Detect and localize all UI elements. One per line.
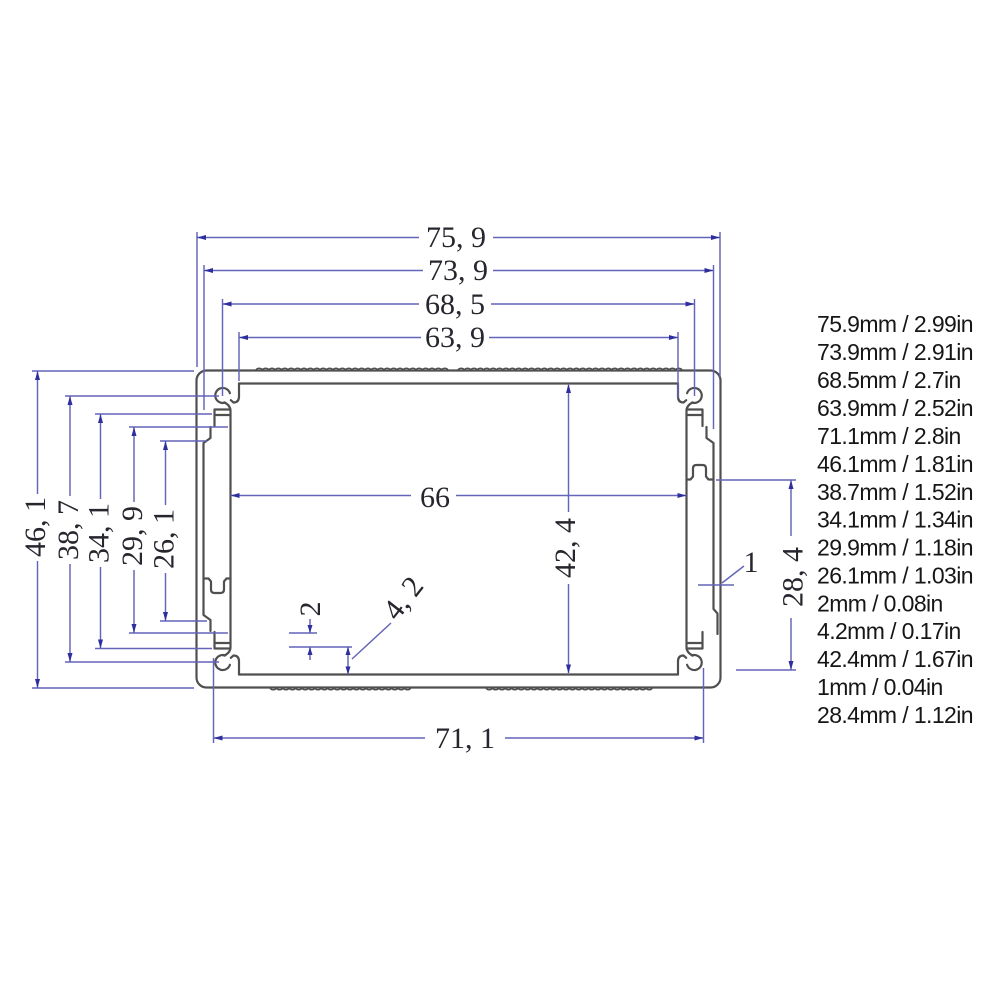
dim 26,1 extensions [160,441,207,621]
svg-text:1: 1 [744,546,759,579]
dim 38,7 line [69,396,71,662]
svg-text:38.7mm / 1.52in: 38.7mm / 1.52in [817,479,973,505]
dim 46,1 extensions [32,371,194,688]
arrows 4,2 [346,647,351,655]
arrows 2 [308,625,313,633]
svg-text:29.9mm / 1.18in: 29.9mm / 1.18in [817,535,973,561]
dim 68,5 extensions [223,299,695,396]
arrows 29,9 [132,427,137,436]
dim 75,9 line [197,237,720,239]
svg-text:29, 9: 29, 9 [116,506,149,566]
svg-text:68.5mm / 2.7in: 68.5mm / 2.7in [817,367,961,393]
dim 66 line [231,495,687,497]
svg-text:73.9mm / 2.91in: 73.9mm / 2.91in [817,339,973,365]
svg-text:4.2mm / 0.17in: 4.2mm / 0.17in [817,618,961,644]
arrows 42,4 [566,384,571,393]
top knurl serration band left [256,368,448,370]
svg-text:26, 1: 26, 1 [148,509,181,569]
dim 2 extensions [289,633,352,647]
top knurl serration band right [458,368,682,370]
dim 1 leader and tick [698,566,744,585]
dim 68,5 line [223,303,695,305]
dim 71,1 line [214,737,704,739]
dimension text labels [19,221,810,755]
dim 29,9 extensions [129,427,228,633]
arrows 68,5 [223,302,232,307]
left shelf with screw groove (U) [204,579,231,594]
svg-text:71.1mm / 2.8in: 71.1mm / 2.8in [817,423,961,449]
arrows 46,1 [35,371,40,380]
dim 28,4 line [790,480,792,670]
dim 73,9 line [204,270,714,272]
svg-text:75, 9: 75, 9 [426,221,486,254]
svg-text:46, 1: 46, 1 [19,497,52,557]
arrows 66 [231,493,240,498]
svg-text:34, 1: 34, 1 [83,503,116,563]
profile: enclosure cross-section outline [197,368,721,690]
svg-text:63.9mm / 2.52in: 63.9mm / 2.52in [817,395,973,421]
svg-text:71, 1: 71, 1 [435,722,495,755]
outer shell rounded rectangle [197,371,721,688]
dim 2 line [309,619,311,660]
right shelf with screw groove (inverted U) [687,465,714,480]
svg-text:42.4mm / 1.67in: 42.4mm / 1.67in [817,646,973,672]
svg-text:63, 9: 63, 9 [425,321,485,354]
svg-text:66: 66 [420,481,450,514]
dim 63,9 line [239,337,678,339]
screw boss bottom-right (mirror) [678,631,703,675]
arrows 71,1 [214,736,223,741]
floor: inner surface of bottom wall [239,673,678,675]
dim 75,9 extensions [197,232,720,377]
dim 63,9 extensions [239,332,678,398]
dimension arrowheads [35,235,794,741]
mm/inch conversion table [817,311,973,728]
ceiling: inner surface of top wall [239,382,678,384]
arrows 26,1 [163,441,168,450]
dim 28,4 extensions [716,480,796,670]
dim 34,1 line [100,414,102,649]
dim 46,1 line [37,371,39,688]
dim 38,7 extensions [65,396,219,662]
dim 42,4 line [568,385,570,673]
screw boss bottom-left (mirror) [215,631,240,675]
dim 4,2 leader [352,623,391,659]
dim 73,9 extensions [204,265,714,429]
bottom knurl serration band left [270,688,411,690]
svg-text:42, 4: 42, 4 [549,518,582,578]
svg-text:1mm / 0.04in: 1mm / 0.04in [817,674,943,700]
screw boss top-left [215,384,240,428]
dim 34,1 extensions [95,414,212,649]
left wall inner surface line [204,427,211,631]
arrows 38,7 [68,396,73,405]
bottom knurl serration band right [486,688,652,690]
arrows 63,9 [239,335,248,340]
svg-text:28.4mm / 1.12in: 28.4mm / 1.12in [817,702,973,728]
svg-text:26.1mm / 1.03in: 26.1mm / 1.03in [817,563,973,589]
arrows 75,9 [197,235,206,240]
svg-text:2: 2 [294,602,327,617]
dim 4,2 line [347,647,349,675]
svg-text:73, 9: 73, 9 [428,254,488,287]
svg-text:75.9mm / 2.99in: 75.9mm / 2.99in [817,311,973,337]
arrows 28,4 [789,480,794,489]
svg-text:28, 4: 28, 4 [777,547,810,607]
screw boss top-right (mirror) [678,384,703,428]
svg-text:68, 5: 68, 5 [425,288,485,321]
svg-text:38, 7: 38, 7 [52,500,85,560]
dim 29,9 line [133,427,135,633]
arrows 73,9 [204,268,213,273]
svg-text:2mm / 0.08in: 2mm / 0.08in [817,591,943,617]
dim 71,1 extensions [214,658,704,743]
dimension lines layer [32,232,796,743]
left PCB rib line [229,427,231,631]
dim 26,1 line [165,441,167,621]
right PCB rib line [685,427,687,631]
svg-text:34.1mm / 1.34in: 34.1mm / 1.34in [817,507,973,533]
arrows 34,1 [98,414,103,423]
svg-text:46.1mm / 1.81in: 46.1mm / 1.81in [817,451,973,477]
right wall inner surface line [707,427,718,634]
